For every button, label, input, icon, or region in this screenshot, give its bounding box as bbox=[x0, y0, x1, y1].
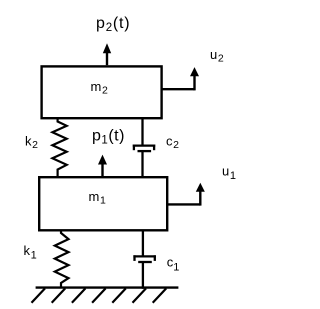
spring k2 bbox=[52, 118, 66, 177]
svg-text:p2(t): p2(t) bbox=[96, 15, 130, 34]
damper c2 bbox=[133, 118, 155, 177]
ground line bbox=[36, 286, 179, 288]
force arrow p1 bbox=[98, 155, 107, 176]
displacement arrow u2 bbox=[162, 67, 199, 90]
spring k1 bbox=[55, 230, 69, 287]
svg-text:p1(t): p1(t) bbox=[92, 128, 125, 147]
ground hatching bbox=[32, 288, 167, 302]
mass m2 bbox=[42, 66, 162, 118]
mass m1 bbox=[39, 177, 167, 230]
displacement arrow u1 bbox=[167, 183, 205, 206]
force arrow p2 bbox=[103, 43, 111, 65]
damper c1 bbox=[133, 230, 156, 288]
